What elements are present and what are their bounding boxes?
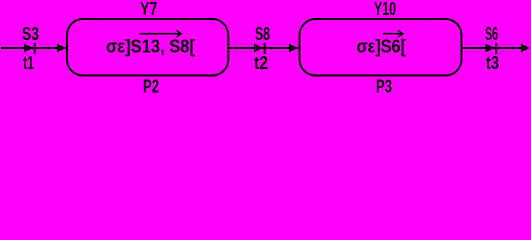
wire output arrow bbox=[462, 47, 529, 49]
svg-text:P3: P3 bbox=[376, 77, 392, 96]
wire P2 to P3 bbox=[228, 47, 298, 49]
svg-text:S3: S3 bbox=[22, 24, 39, 44]
svg-text:σε]S6[: σε]S6[ bbox=[357, 37, 407, 57]
transition t2 bar bbox=[264, 43, 266, 54]
svg-text:S8: S8 bbox=[255, 24, 270, 44]
transition t3 bar bbox=[495, 43, 497, 54]
transition t3 arrowhead bbox=[486, 44, 495, 53]
svg-text:Y7: Y7 bbox=[140, 0, 158, 19]
transition t1 arrowhead bbox=[24, 44, 33, 53]
svg-text:S6: S6 bbox=[485, 24, 498, 44]
box P3 vector arrow bbox=[383, 30, 403, 37]
output arrowhead bbox=[521, 44, 530, 53]
svg-text:σε]S13, S8[: σε]S13, S8[ bbox=[106, 37, 195, 57]
wire input arrow bbox=[1, 47, 66, 49]
svg-text:t2: t2 bbox=[254, 53, 268, 73]
svg-text:t1: t1 bbox=[23, 53, 34, 73]
state box P3 bbox=[300, 19, 462, 76]
arrowhead into P3 bbox=[289, 44, 298, 53]
svg-text:t3: t3 bbox=[486, 53, 499, 73]
svg-text:Y10: Y10 bbox=[374, 0, 396, 19]
transition t1 bar bbox=[34, 43, 36, 54]
arrowhead into P2 bbox=[57, 44, 66, 53]
box P2 vector arrow bbox=[140, 30, 182, 37]
svg-text:P2: P2 bbox=[143, 77, 159, 96]
transition t2 arrowhead bbox=[254, 44, 263, 53]
state box P2 bbox=[67, 19, 228, 76]
